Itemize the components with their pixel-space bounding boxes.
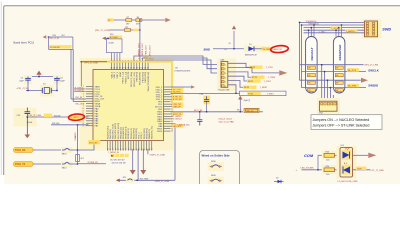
svg-text:<DR1_JT_LINK: <DR1_JT_LINK: [155, 180, 170, 183]
svg-text:5: 5: [225, 82, 226, 84]
svg-text:15: 15: [120, 149, 122, 151]
svg-text:T_SWO: T_SWO: [319, 31, 326, 33]
svg-text:20pF: 20pF: [19, 80, 24, 82]
svg-text:SB_JTCK: SB_JTCK: [348, 70, 357, 72]
svg-text:R4: R4: [137, 17, 139, 19]
svg-text:SB14: SB14: [62, 167, 67, 169]
svg-text:17: 17: [82, 125, 84, 127]
svg-text:9: 9: [83, 106, 84, 108]
svg-text:PA3(US2_RX): PA3(US2_RX): [106, 125, 109, 139]
svg-text:15: 15: [82, 120, 84, 122]
svg-text:Open to use PA8: Open to use PA8: [219, 121, 235, 124]
svg-text:T_JTCK: T_JTCK: [331, 28, 339, 30]
svg-text:PB4(JNTRST): PB4(JNTRST): [140, 71, 142, 85]
svg-text:PA14(JTCK/SWCLK): PA14(JTCK/SWCLK): [147, 72, 150, 92]
svg-text:BAT60JFILM: BAT60JFILM: [245, 54, 257, 57]
svg-text:23: 23: [141, 149, 143, 151]
svg-text:6: 6: [225, 86, 226, 88]
svg-text:STLK_TX: STLK_TX: [15, 164, 26, 166]
svg-text:T_SWO: T_SWO: [267, 94, 275, 96]
svg-text:R8 22: R8 22: [248, 81, 253, 83]
svg-text:PA8(MCO): PA8(MCO): [148, 129, 151, 139]
svg-text:T_JTDO: T_JTDO: [264, 81, 272, 83]
svg-text:STM32F103CBT6: STM32F103CBT6: [174, 70, 191, 72]
svg-text:44: 44: [171, 131, 173, 133]
svg-text:4x10K: 4x10K: [109, 43, 115, 45]
svg-text:R26 780K: R26 780K: [140, 178, 149, 180]
svg-text:5: 5: [83, 96, 84, 98]
svg-text:20pF: 20pF: [60, 80, 65, 82]
svg-text:PF1_JT_LINK: PF1_JT_LINK: [29, 115, 42, 117]
svg-text:C13: C13: [200, 94, 203, 96]
svg-text:26: 26: [149, 149, 151, 151]
svg-text:LED_STLINK: LED_STLINK: [301, 168, 315, 170]
svg-text:OSC_OUT: OSC_OUT: [75, 104, 85, 106]
svg-text:R33: R33: [53, 35, 56, 37]
svg-text:PB7(I2C1_SDA): PB7(I2C1_SDA): [130, 72, 133, 87]
svg-text:4K7: 4K7: [81, 158, 84, 160]
svg-text:Jumpers OFF --> ST-LINK Select: Jumpers OFF --> ST-LINK Selected: [313, 124, 370, 128]
svg-text:R7 22: R7 22: [252, 77, 257, 79]
svg-text:4: 4: [83, 93, 84, 95]
svg-text:4K7 4K7 4K7 4K7: 4K7 4K7 4K7 4K7: [110, 159, 124, 161]
svg-text:T_NRST: T_NRST: [71, 117, 80, 119]
svg-text:1: 1: [225, 64, 226, 66]
svg-text:R7 22: R7 22: [248, 94, 253, 96]
svg-text:SB16: SB16: [211, 161, 216, 163]
svg-text:STLK_RX: STLK_RX: [15, 150, 26, 152]
svg-text:Wired on Solder Side: Wired on Solder Side: [202, 153, 231, 157]
svg-text:OSC_IN: OSC_IN: [75, 97, 83, 99]
svg-text:PB9(T4_C4): PB9(T4_C4): [123, 72, 125, 84]
svg-text:VDD_2: VDD_2: [114, 71, 116, 79]
svg-text:R30: R30: [110, 34, 113, 36]
svg-text:D2: D2: [276, 178, 278, 180]
svg-text:T_SWDIO_OUT: T_SWDIO_OUT: [138, 43, 140, 59]
svg-text:4K7: 4K7: [62, 35, 65, 37]
svg-text:PB3(JTDO): PB3(JTDO): [142, 72, 144, 83]
svg-text:<PF1_JT_X3: <PF1_JT_X3: [17, 87, 30, 90]
svg-text:R34 0R: R34 0R: [54, 115, 61, 117]
svg-text:13: 13: [115, 149, 117, 151]
svg-text:R3 10K/4K7: R3 10K/4K7: [50, 47, 60, 49]
svg-text:<SDF1_JT_LINK: <SDF1_JT_LINK: [149, 154, 165, 157]
svg-text:STLINK_RX: STLINK_RX: [88, 162, 99, 164]
svg-text:T_SWCLK: T_SWCLK: [173, 119, 183, 121]
svg-text:10: 10: [82, 108, 84, 110]
svg-text:R2: R2: [111, 155, 113, 157]
svg-text:T_SWDIO: T_SWDIO: [346, 31, 355, 33]
svg-text:PA6(SPI1_MISO): PA6(SPI1_MISO): [114, 123, 117, 139]
svg-text:SB13: SB13: [62, 153, 67, 155]
svg-text:PA9(US1_TX): PA9(US1_TX): [151, 126, 154, 139]
svg-text:12: 12: [112, 149, 114, 151]
svg-text:SB16: SB16: [211, 175, 216, 177]
svg-text:27: 27: [151, 149, 153, 151]
svg-text:BOOT0: BOOT0: [128, 71, 130, 79]
svg-text:STLK_RX: STLK_RX: [89, 142, 98, 144]
svg-text:T_SWCLK_OUT: T_SWCLK_OUT: [142, 42, 144, 59]
svg-text:VDD_1: VDD_1: [117, 71, 119, 79]
svg-text:DEFAULT: DEFAULT: [310, 47, 314, 60]
svg-text:Header 6SS: Header 6SS: [219, 89, 231, 91]
svg-text:<PF1_JT_LINK: <PF1_JT_LINK: [84, 62, 98, 65]
svg-text:USART2: USART2: [74, 132, 77, 141]
svg-text:SWD: SWD: [204, 48, 211, 52]
svg-text:PB8(T4_C3): PB8(T4_C3): [125, 72, 127, 84]
svg-text:Board Ident: PC13: Board Ident: PC13: [14, 42, 35, 45]
svg-text:R35 10K: R35 10K: [52, 123, 60, 125]
svg-text:<T1_JT_LINK: <T1_JT_LINK: [371, 169, 384, 172]
svg-text:11: 11: [110, 149, 112, 151]
svg-text:R7: R7: [127, 17, 129, 19]
svg-text:20: 20: [133, 149, 135, 151]
svg-text:21: 21: [136, 149, 138, 151]
svg-text:SWCLK: SWCLK: [368, 69, 380, 73]
svg-text:3: 3: [225, 73, 226, 75]
svg-text:RESERVED: RESERVED: [338, 45, 342, 61]
svg-text:MCO: MCO: [237, 110, 242, 112]
svg-text:PB14: PB14: [157, 131, 163, 133]
svg-text:40: 40: [171, 121, 173, 123]
svg-text:PA4(SPI1): PA4(SPI1): [109, 129, 112, 139]
svg-text:Jumpers ON --> NUCLEO Selecte: Jumpers ON --> NUCLEO Selected: [313, 118, 370, 122]
svg-text:PA15(JTDI): PA15(JTDI): [144, 71, 147, 82]
svg-text:MCO_1M: MCO_1M: [194, 110, 203, 112]
svg-text:R9 22: R9 22: [244, 87, 249, 89]
svg-text:1: 1: [83, 86, 84, 88]
svg-text:7R5_1%: 7R5_1%: [246, 110, 254, 112]
svg-text:PB1(ADC12): PB1(ADC12): [122, 127, 125, 139]
svg-text:4: 4: [225, 77, 226, 79]
svg-text:19: 19: [130, 149, 132, 151]
svg-text:TCK/SWCLK: TCK/SWCLK: [306, 21, 318, 23]
svg-text:PB5(SPI1): PB5(SPI1): [137, 72, 139, 82]
svg-text:PA7(SPI1_MOSI): PA7(SPI1_MOSI): [117, 123, 120, 139]
svg-text:PB0(ADC12): PB0(ADC12): [119, 127, 122, 139]
svg-text:T_JRST_OUT: T_JRST_OUT: [149, 44, 151, 59]
svg-text:SWDIO: SWDIO: [368, 84, 379, 88]
svg-text:T_SWDIO_IN: T_SWDIO_IN: [108, 152, 120, 154]
svg-text:17: 17: [125, 149, 127, 151]
svg-text:B_PD_RX: B_PD_RX: [173, 99, 182, 101]
svg-text:(B_IDENT): (B_IDENT): [75, 90, 84, 92]
svg-text:25pF(?): 25pF(?): [244, 100, 251, 102]
svg-text:100R: 100R: [357, 168, 362, 170]
svg-text:JP1: JP1: [125, 27, 128, 29]
svg-text:2R7: 2R7: [126, 23, 129, 25]
svg-text:USB_DP: USB_DP: [173, 106, 181, 108]
svg-text:<DF1_JT_LINK: <DF1_JT_LINK: [364, 64, 379, 67]
svg-text:JP6: JP6: [123, 177, 126, 179]
svg-text:ASIG_5V: ASIG_5V: [274, 48, 283, 51]
svg-text:4R7: 4R7: [136, 23, 139, 25]
svg-text:PA5(SPI1_SCK): PA5(SPI1_SCK): [112, 124, 115, 139]
svg-text:18: 18: [128, 149, 130, 151]
svg-text:43: 43: [171, 128, 173, 130]
svg-text:LD_BICOLOR_CMD: LD_BICOLOR_CMD: [338, 181, 358, 183]
svg-text:16: 16: [123, 149, 125, 151]
svg-text:T_NRST: T_NRST: [260, 87, 269, 89]
svg-text:T_JTCK: T_JTCK: [266, 67, 274, 69]
svg-text:VBAT: VBAT: [119, 71, 122, 77]
svg-text:Default: closed: Default: closed: [219, 118, 232, 121]
svg-text:SWD: SWD: [382, 27, 391, 31]
svg-text:COM: COM: [304, 153, 314, 158]
svg-text:T_JTMS: T_JTMS: [268, 77, 276, 79]
svg-text:35: 35: [171, 109, 173, 111]
svg-text:PF0_JT_X3: PF0_JT_X3: [50, 38, 60, 40]
svg-text:T_SWO(A_RX): T_SWO(A_RX): [177, 123, 190, 126]
svg-text:SB_JTMS: SB_JTMS: [348, 86, 357, 88]
svg-text:11: 11: [83, 111, 85, 113]
svg-text:PB6(I2C1_SCL): PB6(I2C1_SCL): [134, 71, 136, 86]
svg-text:VDD_3: VDD_3: [111, 71, 113, 79]
svg-text:2: 2: [225, 69, 226, 71]
svg-text:(PF1_JT_LOW): (PF1_JT_LOW): [95, 30, 110, 32]
svg-text:10K 10K 10K 10K: 10K 10K 10K 10K: [112, 162, 127, 164]
svg-text:14: 14: [117, 149, 119, 151]
svg-text:25: 25: [146, 149, 148, 151]
svg-text:10: 10: [107, 149, 109, 151]
